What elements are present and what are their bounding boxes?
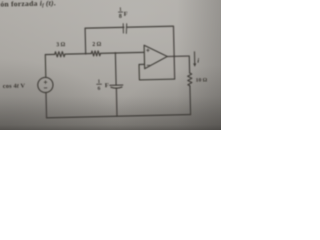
- paper background: [0, 0, 221, 130]
- output junction: [173, 55, 175, 57]
- label i: [197, 58, 199, 65]
- op-amp - sign: [147, 64, 150, 66]
- bottom rail: [47, 115, 191, 118]
- svg-text:2 Ω: 2 Ω: [92, 42, 101, 48]
- wire: inverting feedback loop: [139, 64, 175, 80]
- source cos4t V: [38, 77, 54, 93]
- label 3Ω: [56, 42, 65, 48]
- svg-text:3 Ω: 3 Ω: [56, 42, 65, 48]
- wire: node B riser to capacitor: [114, 53, 117, 85]
- label 1/6 F: [97, 80, 109, 92]
- wire: left rail below source: [45, 93, 48, 118]
- wire: op-amp output: [167, 56, 189, 73]
- svg-text:F: F: [105, 82, 109, 89]
- capacitor 1/6F: [110, 85, 123, 88]
- label 10Ω: [196, 78, 208, 84]
- svg-text:6: 6: [98, 86, 101, 92]
- node B junction: [114, 52, 116, 54]
- wire: left rail above source: [44, 55, 47, 78]
- svg-text:10 Ω: 10 Ω: [196, 78, 208, 84]
- svg-text:8: 8: [119, 14, 122, 20]
- source - sign: [44, 87, 47, 89]
- svg-text:F: F: [124, 11, 128, 18]
- label cos 4t V: [3, 82, 26, 90]
- resistor 10Ω: [188, 73, 192, 86]
- current arrow i: [193, 52, 195, 64]
- op-amp U1: [144, 45, 167, 69]
- wire: node A riser: [84, 28, 87, 53]
- wire: top feedback right: [127, 26, 175, 80]
- resistor 2Ω: [91, 51, 100, 56]
- resistor 3Ω: [55, 52, 65, 57]
- wire: capacitor to bottom rail: [115, 88, 118, 116]
- wire: top rail to op-amp: [100, 51, 144, 54]
- label 1/8 F: [119, 8, 128, 21]
- wire: top rail between resistors: [65, 53, 91, 56]
- svg-text:cos 4t V: cos 4t V: [3, 82, 26, 90]
- source + sign: [44, 81, 47, 84]
- op-amp + sign: [146, 49, 149, 52]
- node A junction: [85, 53, 87, 55]
- label 2Ω: [92, 42, 101, 48]
- capacitor 1/8F: [123, 24, 127, 34]
- wire: top rail left segment: [45, 53, 54, 55]
- wire: top feedback left: [85, 26, 124, 29]
- wire: 10Ω to bottom rail: [189, 86, 192, 115]
- caption text fragment: [0, 0, 56, 10]
